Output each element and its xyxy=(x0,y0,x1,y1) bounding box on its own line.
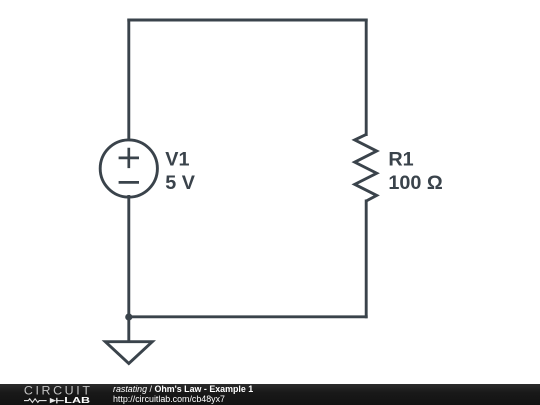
CircuitLab logo xyxy=(0,384,110,405)
svg-text:R1: R1 xyxy=(388,148,413,170)
svg-text:V1: V1 xyxy=(165,148,189,170)
wire right upper (top corner to R1 top) xyxy=(365,20,368,135)
svg-text:100 Ω: 100 Ω xyxy=(388,172,443,194)
wire bottom horizontal xyxy=(129,315,366,318)
svg-text:5 V: 5 V xyxy=(165,172,195,194)
footer credits text xyxy=(113,384,253,405)
ground symbol xyxy=(105,342,152,364)
wire left upper (top corner to V1 top) xyxy=(127,20,130,141)
wire right lower (R1 bottom to bottom corner) xyxy=(365,201,368,317)
voltage source V1 xyxy=(100,140,157,197)
resistor R1 zigzag xyxy=(355,134,377,201)
wire ground stem xyxy=(127,317,130,341)
svg-text:LAB: LAB xyxy=(64,396,90,405)
footer bar xyxy=(0,384,540,405)
wire left lower (V1 bottom to node) xyxy=(127,197,130,317)
node junction dot xyxy=(125,313,132,320)
wire top horizontal xyxy=(129,19,366,22)
